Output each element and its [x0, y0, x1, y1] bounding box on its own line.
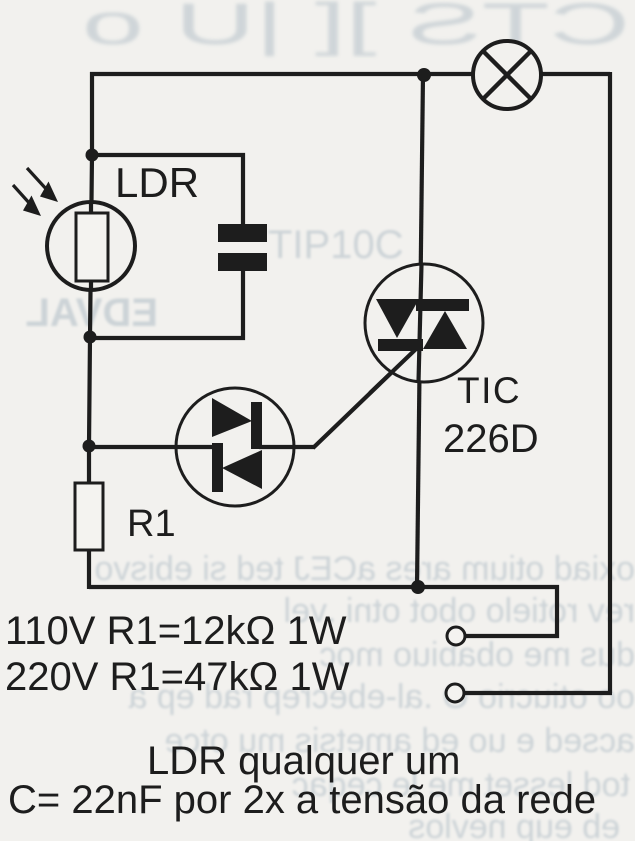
svg-text:R1: R1 [127, 503, 176, 545]
svg-text:226D: 226D [443, 417, 539, 461]
wire: triac main vertical [417, 74, 423, 587]
capacitor C1 plate top [218, 224, 267, 242]
bleed-through paragraph line 1 [95, 550, 635, 588]
junction node bottom triac [411, 580, 425, 594]
junction node LDR bottom [84, 331, 97, 344]
bleed-through paragraph line 2 [283, 592, 635, 630]
wire: diac right lead [259, 445, 315, 449]
wire: capacitor branch top [92, 155, 243, 226]
triac TIC226D [365, 264, 483, 393]
wire: diac left lead [89, 445, 215, 449]
LDR light arrow 1 [27, 168, 58, 202]
bleed-through headline top [82, 0, 630, 57]
svg-text:CTS ][ |U o: CTS ][ |U o [82, 0, 630, 57]
terminal upper [447, 627, 465, 645]
bleed-through EDVAL [25, 291, 158, 335]
wire: right vertical rail [608, 72, 612, 693]
svg-text:TIP10C: TIP10C [268, 223, 404, 267]
svg-text:LDR: LDR [115, 159, 199, 206]
svg-text:LDR qualquer um: LDR qualquer um [147, 739, 461, 783]
wire: triac gate diagonal [313, 349, 416, 448]
svg-text:110V R1=12kΩ 1W: 110V R1=12kΩ 1W [5, 609, 347, 653]
LDR [47, 202, 135, 290]
svg-text:220V R1=47kΩ 1W: 220V R1=47kΩ 1W [5, 655, 350, 699]
bleed-through paragraph line 6 [292, 766, 630, 804]
bleed-through paragraph line 3 [319, 636, 635, 674]
wire: lower terminal lead [462, 691, 612, 695]
bleed-through paragraph line 7 [408, 808, 620, 841]
svg-text:dus me obabiuo moc: dus me obabiuo moc [319, 636, 635, 674]
junction node top triac [417, 68, 431, 82]
svg-text:TIC: TIC [457, 370, 521, 411]
diac D1 [176, 388, 294, 506]
capacitor C1 plate bottom [218, 253, 267, 271]
junction node top-left [86, 149, 99, 162]
wire: bottom rail [89, 587, 557, 636]
wire: capacitor branch bottom [90, 269, 243, 338]
wire: left vertical rail [89, 72, 92, 589]
terminal lower [446, 684, 464, 702]
lamp L1 [473, 41, 541, 109]
svg-text:C= 22nF por 2x a tensão da red: C= 22nF por 2x a tensão da rede [8, 778, 596, 822]
bleed-through paragraph line 4 [128, 678, 635, 716]
LDR light arrow 2 [13, 185, 41, 216]
junction node diac lead [83, 440, 96, 453]
resistor R1 [75, 483, 103, 550]
wire: top horizontal rail [90, 72, 610, 76]
bleed-through paragraph line 5 [164, 722, 635, 760]
svg-text:oxiad otium ares aCEJ ted si e: oxiad otium ares aCEJ ted si ebisvo [95, 550, 635, 588]
